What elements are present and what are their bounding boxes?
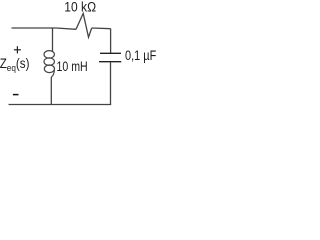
wire capacitor bottom stub [110,62,112,104]
svg-text:0,1 µF: 0,1 µF [125,48,156,63]
wire top-right (resistor to capacitor) [92,27,111,30]
svg-text:Zeq(s): Zeq(s) [0,56,29,74]
svg-text:10 kΩ: 10 kΩ [64,0,96,14]
resistor 10 kΩ (series zigzag in top rail) [76,13,92,37]
plus terminal mark [14,46,21,53]
inductor 10 mH (3-loop coil) [44,51,55,78]
capacitor 0,1 µF bottom plate [99,61,121,63]
svg-text:10 mH: 10 mH [57,59,88,74]
node A junction (top rail / inductor tap) [52,28,54,29]
wire inductor top stub [52,28,54,51]
minus terminal mark [13,94,19,96]
wire top-left (port + to node A) [12,28,77,29]
wire capacitor top stub [110,29,112,53]
capacitor 0,1 µF top plate [100,52,121,54]
wire inductor bottom stub [50,77,52,105]
wire bottom rail [9,104,112,106]
